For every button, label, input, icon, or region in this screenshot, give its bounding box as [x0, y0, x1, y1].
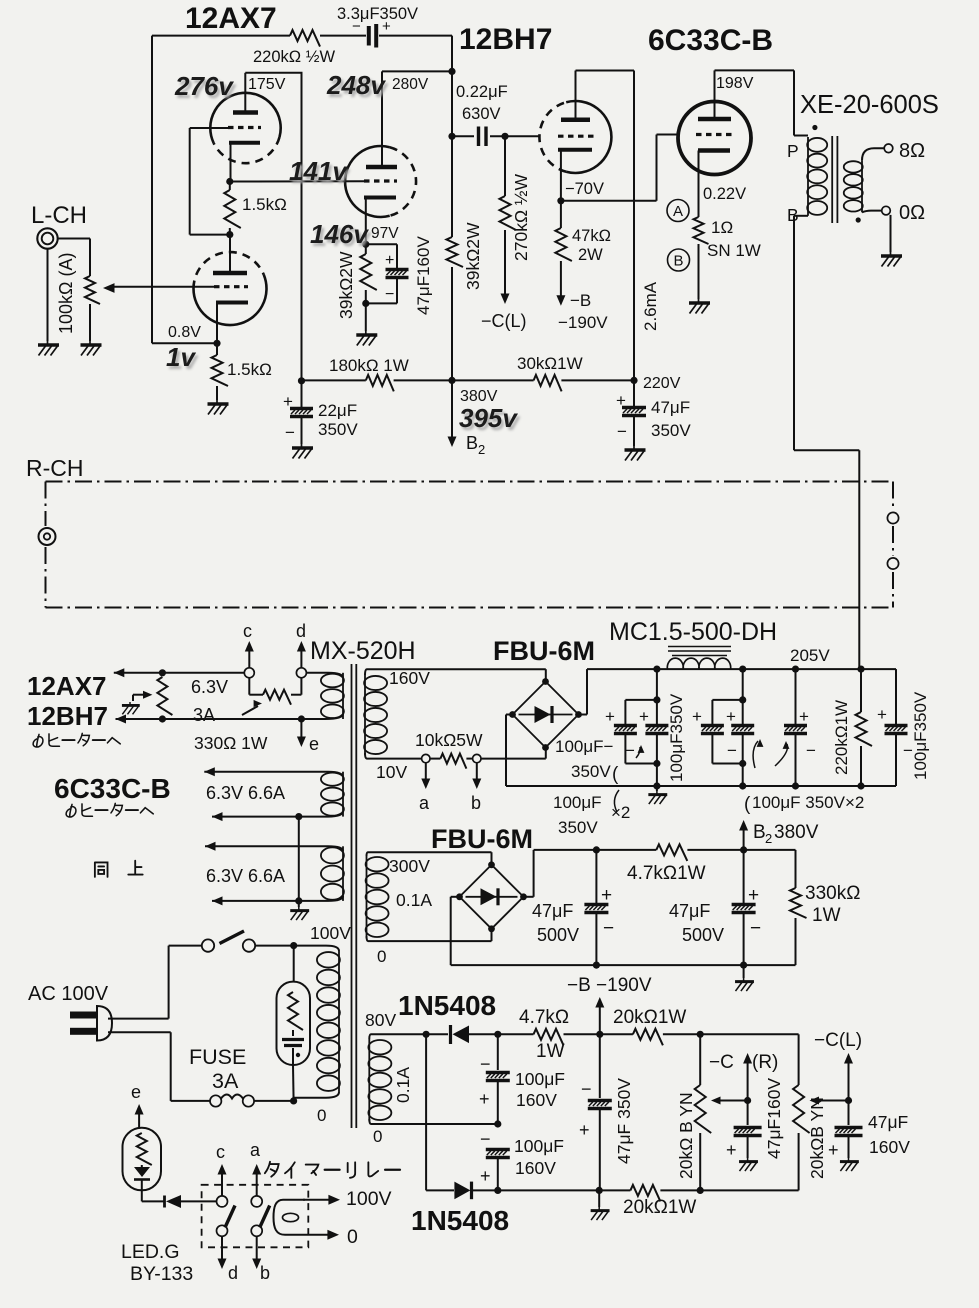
svg-text:47μF: 47μF: [669, 901, 710, 921]
svg-text:10kΩ5W: 10kΩ5W: [415, 730, 483, 750]
svg-text:47kΩ: 47kΩ: [572, 227, 611, 245]
svg-text:MC1.5-500-DH: MC1.5-500-DH: [609, 618, 777, 646]
svg-text:100V: 100V: [310, 923, 351, 943]
svg-text:d: d: [296, 621, 306, 641]
svg-text:47μF: 47μF: [532, 901, 573, 921]
svg-text:FUSE: FUSE: [189, 1045, 246, 1069]
svg-text:12AX7: 12AX7: [185, 2, 277, 35]
svg-text:4.7kΩ1W: 4.7kΩ1W: [627, 863, 706, 884]
svg-text:47μF 350V: 47μF 350V: [614, 1078, 634, 1164]
svg-text:(: (: [612, 764, 619, 785]
svg-text:L-CH: L-CH: [31, 202, 87, 229]
svg-text:6C33C-B: 6C33C-B: [54, 773, 171, 804]
svg-text:BY-133: BY-133: [130, 1263, 193, 1285]
svg-text:0.1A: 0.1A: [396, 890, 432, 910]
svg-text:−C(L): −C(L): [814, 1030, 862, 1051]
svg-text:160V: 160V: [516, 1090, 557, 1110]
svg-text:0Ω: 0Ω: [899, 202, 925, 224]
svg-text:b: b: [260, 1263, 270, 1283]
svg-text:12AX7: 12AX7: [27, 671, 107, 701]
svg-text:160V: 160V: [515, 1158, 556, 1178]
svg-text:2W: 2W: [578, 246, 603, 264]
svg-text:−: −: [625, 741, 635, 760]
svg-text:350V: 350V: [558, 818, 598, 837]
svg-text:8Ω: 8Ω: [899, 140, 925, 162]
svg-text:141v: 141v: [289, 156, 348, 186]
svg-text:0.8V: 0.8V: [168, 324, 201, 341]
svg-text:XE-20-600S: XE-20-600S: [800, 91, 939, 119]
svg-text:6.3V: 6.3V: [191, 677, 228, 697]
svg-text:+: +: [639, 707, 649, 726]
svg-text:180kΩ 1W: 180kΩ 1W: [329, 356, 409, 375]
svg-text:SN 1W: SN 1W: [707, 241, 761, 260]
svg-text:100kΩ (A): 100kΩ (A): [56, 253, 76, 334]
svg-text:B: B: [466, 433, 478, 453]
svg-text:20kΩ1W: 20kΩ1W: [613, 1007, 686, 1028]
svg-text:−: −: [806, 741, 816, 760]
svg-text:MX-520H: MX-520H: [310, 637, 416, 665]
svg-text:B: B: [673, 253, 683, 270]
svg-text:2: 2: [478, 442, 485, 457]
svg-text:100μF: 100μF: [515, 1069, 565, 1089]
svg-text:270kΩ ½W: 270kΩ ½W: [511, 174, 531, 261]
svg-text:FBU-6M: FBU-6M: [493, 636, 595, 666]
svg-text:+: +: [616, 391, 626, 410]
svg-text:500V: 500V: [537, 925, 579, 945]
svg-text:−: −: [617, 422, 627, 441]
svg-text:B: B: [753, 822, 766, 843]
svg-text:500V: 500V: [682, 925, 724, 945]
svg-text:6.3V 6.6A: 6.3V 6.6A: [206, 783, 285, 803]
svg-text:−190V: −190V: [558, 313, 608, 332]
svg-text:+: +: [877, 705, 887, 724]
svg-text:380V: 380V: [774, 822, 819, 843]
svg-text:0.22μF: 0.22μF: [456, 83, 508, 101]
svg-text:a: a: [419, 793, 430, 813]
svg-text:12BH7: 12BH7: [459, 23, 552, 56]
svg-text:−: −: [385, 286, 394, 303]
svg-text:−: −: [480, 1129, 491, 1149]
svg-text:300V: 300V: [389, 856, 430, 876]
svg-text:97V: 97V: [371, 225, 399, 242]
svg-text:−: −: [603, 918, 614, 939]
svg-text:+: +: [799, 707, 809, 726]
svg-text:+: +: [726, 1140, 737, 1160]
svg-text:280V: 280V: [392, 76, 429, 93]
svg-text:+: +: [283, 392, 293, 411]
svg-text:0.1A: 0.1A: [393, 1067, 413, 1103]
svg-text:d: d: [228, 1263, 238, 1283]
svg-text:1N5408: 1N5408: [411, 1205, 509, 1236]
svg-text:+: +: [692, 707, 702, 726]
svg-text:10V: 10V: [376, 762, 407, 782]
svg-text:4.7kΩ: 4.7kΩ: [519, 1007, 569, 1028]
svg-text:−C: −C: [709, 1052, 734, 1073]
svg-text:39kΩ2W: 39kΩ2W: [463, 222, 483, 290]
svg-text:c: c: [243, 621, 252, 641]
svg-text:+: +: [828, 1140, 839, 1160]
svg-text:160V: 160V: [869, 1137, 910, 1157]
svg-text:1W: 1W: [536, 1041, 565, 1062]
svg-text:+: +: [726, 707, 736, 726]
svg-text:30kΩ1W: 30kΩ1W: [517, 354, 583, 373]
svg-text:−: −: [727, 741, 737, 760]
svg-text:2.6mA: 2.6mA: [641, 281, 660, 331]
svg-text:330Ω 1W: 330Ω 1W: [194, 733, 268, 753]
svg-text:0: 0: [347, 1226, 358, 1248]
svg-text:×2: ×2: [611, 803, 630, 822]
svg-text:0: 0: [373, 1127, 382, 1146]
svg-text:−70V: −70V: [565, 180, 604, 198]
svg-text:100μF350V: 100μF350V: [911, 691, 930, 780]
svg-text:146v: 146v: [310, 219, 369, 249]
svg-text:100μF−: 100μF−: [555, 737, 614, 756]
svg-text:47μF: 47μF: [868, 1112, 908, 1132]
svg-text:220V: 220V: [643, 375, 681, 392]
svg-text:175V: 175V: [248, 76, 286, 93]
svg-text:220kΩ ½W: 220kΩ ½W: [253, 48, 335, 66]
svg-text:e: e: [131, 1082, 141, 1102]
svg-text:c: c: [216, 1142, 225, 1162]
svg-text:198V: 198V: [716, 75, 754, 92]
svg-text:80V: 80V: [365, 1010, 396, 1030]
svg-text:47μF160V: 47μF160V: [764, 1078, 784, 1159]
svg-text:330kΩ: 330kΩ: [805, 883, 860, 904]
svg-text:+: +: [601, 885, 612, 906]
svg-text:20kΩ B YN: 20kΩ B YN: [676, 1092, 696, 1179]
svg-text:3A: 3A: [212, 1069, 239, 1093]
svg-text:−B: −B: [570, 291, 591, 310]
svg-text:100μF 350V×2: 100μF 350V×2: [752, 793, 864, 812]
svg-text:+: +: [479, 1089, 490, 1109]
svg-text:2: 2: [765, 831, 772, 846]
svg-text:B: B: [787, 205, 799, 225]
svg-text:+: +: [748, 885, 759, 906]
svg-text:248v: 248v: [326, 70, 386, 100]
svg-text:e: e: [309, 734, 319, 754]
svg-text:b: b: [471, 793, 481, 813]
svg-text:0: 0: [377, 947, 386, 966]
svg-text:R-CH: R-CH: [26, 455, 84, 481]
svg-text:(: (: [744, 794, 751, 815]
svg-text:P: P: [787, 141, 799, 161]
svg-text:a: a: [250, 1140, 261, 1160]
svg-text:1v: 1v: [166, 342, 196, 372]
svg-text:1.5kΩ: 1.5kΩ: [242, 195, 287, 214]
svg-text:160V: 160V: [389, 668, 430, 688]
svg-text:+: +: [480, 1166, 491, 1186]
svg-text:0.22V: 0.22V: [703, 185, 746, 203]
svg-text:100μF: 100μF: [553, 793, 602, 812]
svg-text:0: 0: [317, 1106, 326, 1125]
svg-text:+: +: [579, 1120, 590, 1140]
svg-text:AC 100V: AC 100V: [28, 983, 109, 1005]
svg-text:350V: 350V: [318, 420, 358, 439]
svg-text:350V: 350V: [571, 762, 611, 781]
svg-text:−C(L): −C(L): [481, 311, 527, 331]
svg-text:1.5kΩ: 1.5kΩ: [227, 360, 272, 379]
svg-text:12BH7: 12BH7: [27, 701, 108, 731]
svg-text:FBU-6M: FBU-6M: [431, 824, 533, 854]
svg-text:20kΩB YN: 20kΩB YN: [807, 1097, 827, 1179]
svg-text:22μF: 22μF: [318, 401, 357, 420]
svg-text:3.3μF350V: 3.3μF350V: [337, 5, 418, 23]
svg-text:+: +: [385, 252, 394, 269]
svg-text:1N5408: 1N5408: [398, 990, 496, 1021]
svg-text:100μF350V: 100μF350V: [667, 693, 686, 782]
svg-text:−: −: [285, 423, 295, 442]
svg-text:220kΩ1W: 220kΩ1W: [832, 700, 851, 775]
svg-text:1W: 1W: [812, 905, 841, 926]
svg-text:(R): (R): [752, 1052, 778, 1073]
svg-text:−: −: [581, 1079, 592, 1099]
svg-text:3A: 3A: [193, 705, 215, 725]
svg-text:100V: 100V: [346, 1188, 392, 1210]
svg-text:47μF: 47μF: [651, 398, 690, 417]
svg-text:6C33C-B: 6C33C-B: [648, 24, 773, 57]
svg-text:−: −: [750, 918, 761, 939]
svg-text:LED.G: LED.G: [121, 1241, 180, 1263]
svg-text:630V: 630V: [462, 105, 501, 123]
svg-text:205V: 205V: [790, 646, 830, 665]
svg-text:47μF160V: 47μF160V: [414, 236, 433, 315]
svg-text:39kΩ2W: 39kΩ2W: [336, 251, 356, 319]
svg-text:395v: 395v: [459, 403, 518, 433]
svg-text:1Ω: 1Ω: [711, 218, 733, 237]
svg-text:−B −190V: −B −190V: [567, 975, 652, 996]
svg-text:20kΩ1W: 20kΩ1W: [623, 1197, 696, 1218]
svg-text:350V: 350V: [651, 421, 691, 440]
svg-text:100μF: 100μF: [514, 1136, 564, 1156]
svg-text:+: +: [605, 707, 615, 726]
svg-text:6.3V 6.6A: 6.3V 6.6A: [206, 866, 285, 886]
svg-text:A: A: [673, 203, 683, 220]
svg-text:276v: 276v: [174, 71, 234, 101]
